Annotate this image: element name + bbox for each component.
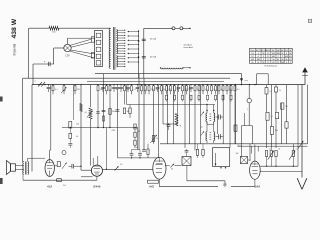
svg-text:2k: 2k <box>279 90 281 92</box>
svg-text:438 W: 438 W <box>11 18 18 38</box>
svg-text:70: 70 <box>197 89 199 91</box>
svg-text:418: 418 <box>47 184 52 188</box>
svg-text:Röh: Röh <box>251 50 255 52</box>
svg-text:0,2: 0,2 <box>296 149 298 151</box>
svg-text:0,5: 0,5 <box>237 89 240 91</box>
svg-text:100: 100 <box>236 153 239 155</box>
svg-text:0,2: 0,2 <box>169 89 172 91</box>
svg-text:5k: 5k <box>251 62 253 64</box>
svg-text:5k: 5k <box>257 62 259 64</box>
svg-text:50: 50 <box>164 89 166 91</box>
svg-text:5k: 5k <box>272 59 274 61</box>
svg-text:0,3: 0,3 <box>269 91 271 93</box>
svg-text:0,1: 0,1 <box>205 89 208 91</box>
svg-text:50k: 50k <box>275 130 278 132</box>
svg-text:0,5: 0,5 <box>156 138 159 140</box>
svg-text:0,1: 0,1 <box>55 89 58 91</box>
svg-text:2x50: 2x50 <box>134 147 138 149</box>
svg-text:W: W <box>289 50 291 52</box>
svg-text:5k: 5k <box>278 149 280 151</box>
svg-text:0,1: 0,1 <box>269 149 271 151</box>
svg-text:300: 300 <box>127 111 130 113</box>
svg-text:0,5: 0,5 <box>109 89 112 91</box>
svg-text:40: 40 <box>171 169 173 171</box>
svg-text:9k: 9k <box>214 89 216 91</box>
svg-text:30k: 30k <box>76 123 79 125</box>
svg-text:LDr: LDr <box>237 144 241 147</box>
svg-text:alte Ausf.: alte Ausf. <box>184 43 193 46</box>
svg-text:EM: EM <box>277 50 280 52</box>
svg-text:5k: 5k <box>156 89 158 91</box>
svg-text:5k: 5k <box>285 59 287 61</box>
svg-text:2: 2 <box>35 80 36 82</box>
svg-text:Imperial: Imperial <box>13 44 17 56</box>
svg-text:2A8: 2A8 <box>254 184 261 188</box>
svg-text:0,1: 0,1 <box>85 112 88 114</box>
svg-text:5000: 5000 <box>112 111 116 113</box>
svg-text:0,2: 0,2 <box>134 89 137 91</box>
svg-text:0,1: 0,1 <box>271 116 274 118</box>
svg-text:LTV: LTV <box>65 56 70 58</box>
svg-text:A42: A42 <box>148 185 155 189</box>
svg-text:45 mA: 45 mA <box>150 38 156 41</box>
svg-text:neue Ausf.: neue Ausf. <box>184 46 194 49</box>
svg-text:5k: 5k <box>289 53 291 55</box>
svg-text:Ruf-Gehäuse: Ruf-Gehäuse <box>265 66 278 68</box>
svg-text:60: 60 <box>120 164 122 166</box>
svg-text:60 mA: 60 mA <box>150 56 156 59</box>
svg-text:E446: E446 <box>93 185 100 189</box>
svg-text:4k: 4k <box>76 136 78 138</box>
svg-text:50k: 50k <box>100 89 103 91</box>
svg-text:6k: 6k <box>221 89 223 91</box>
svg-text:aus: aus <box>245 80 248 82</box>
svg-text:80: 80 <box>116 89 118 91</box>
svg-text:20k: 20k <box>151 89 154 91</box>
